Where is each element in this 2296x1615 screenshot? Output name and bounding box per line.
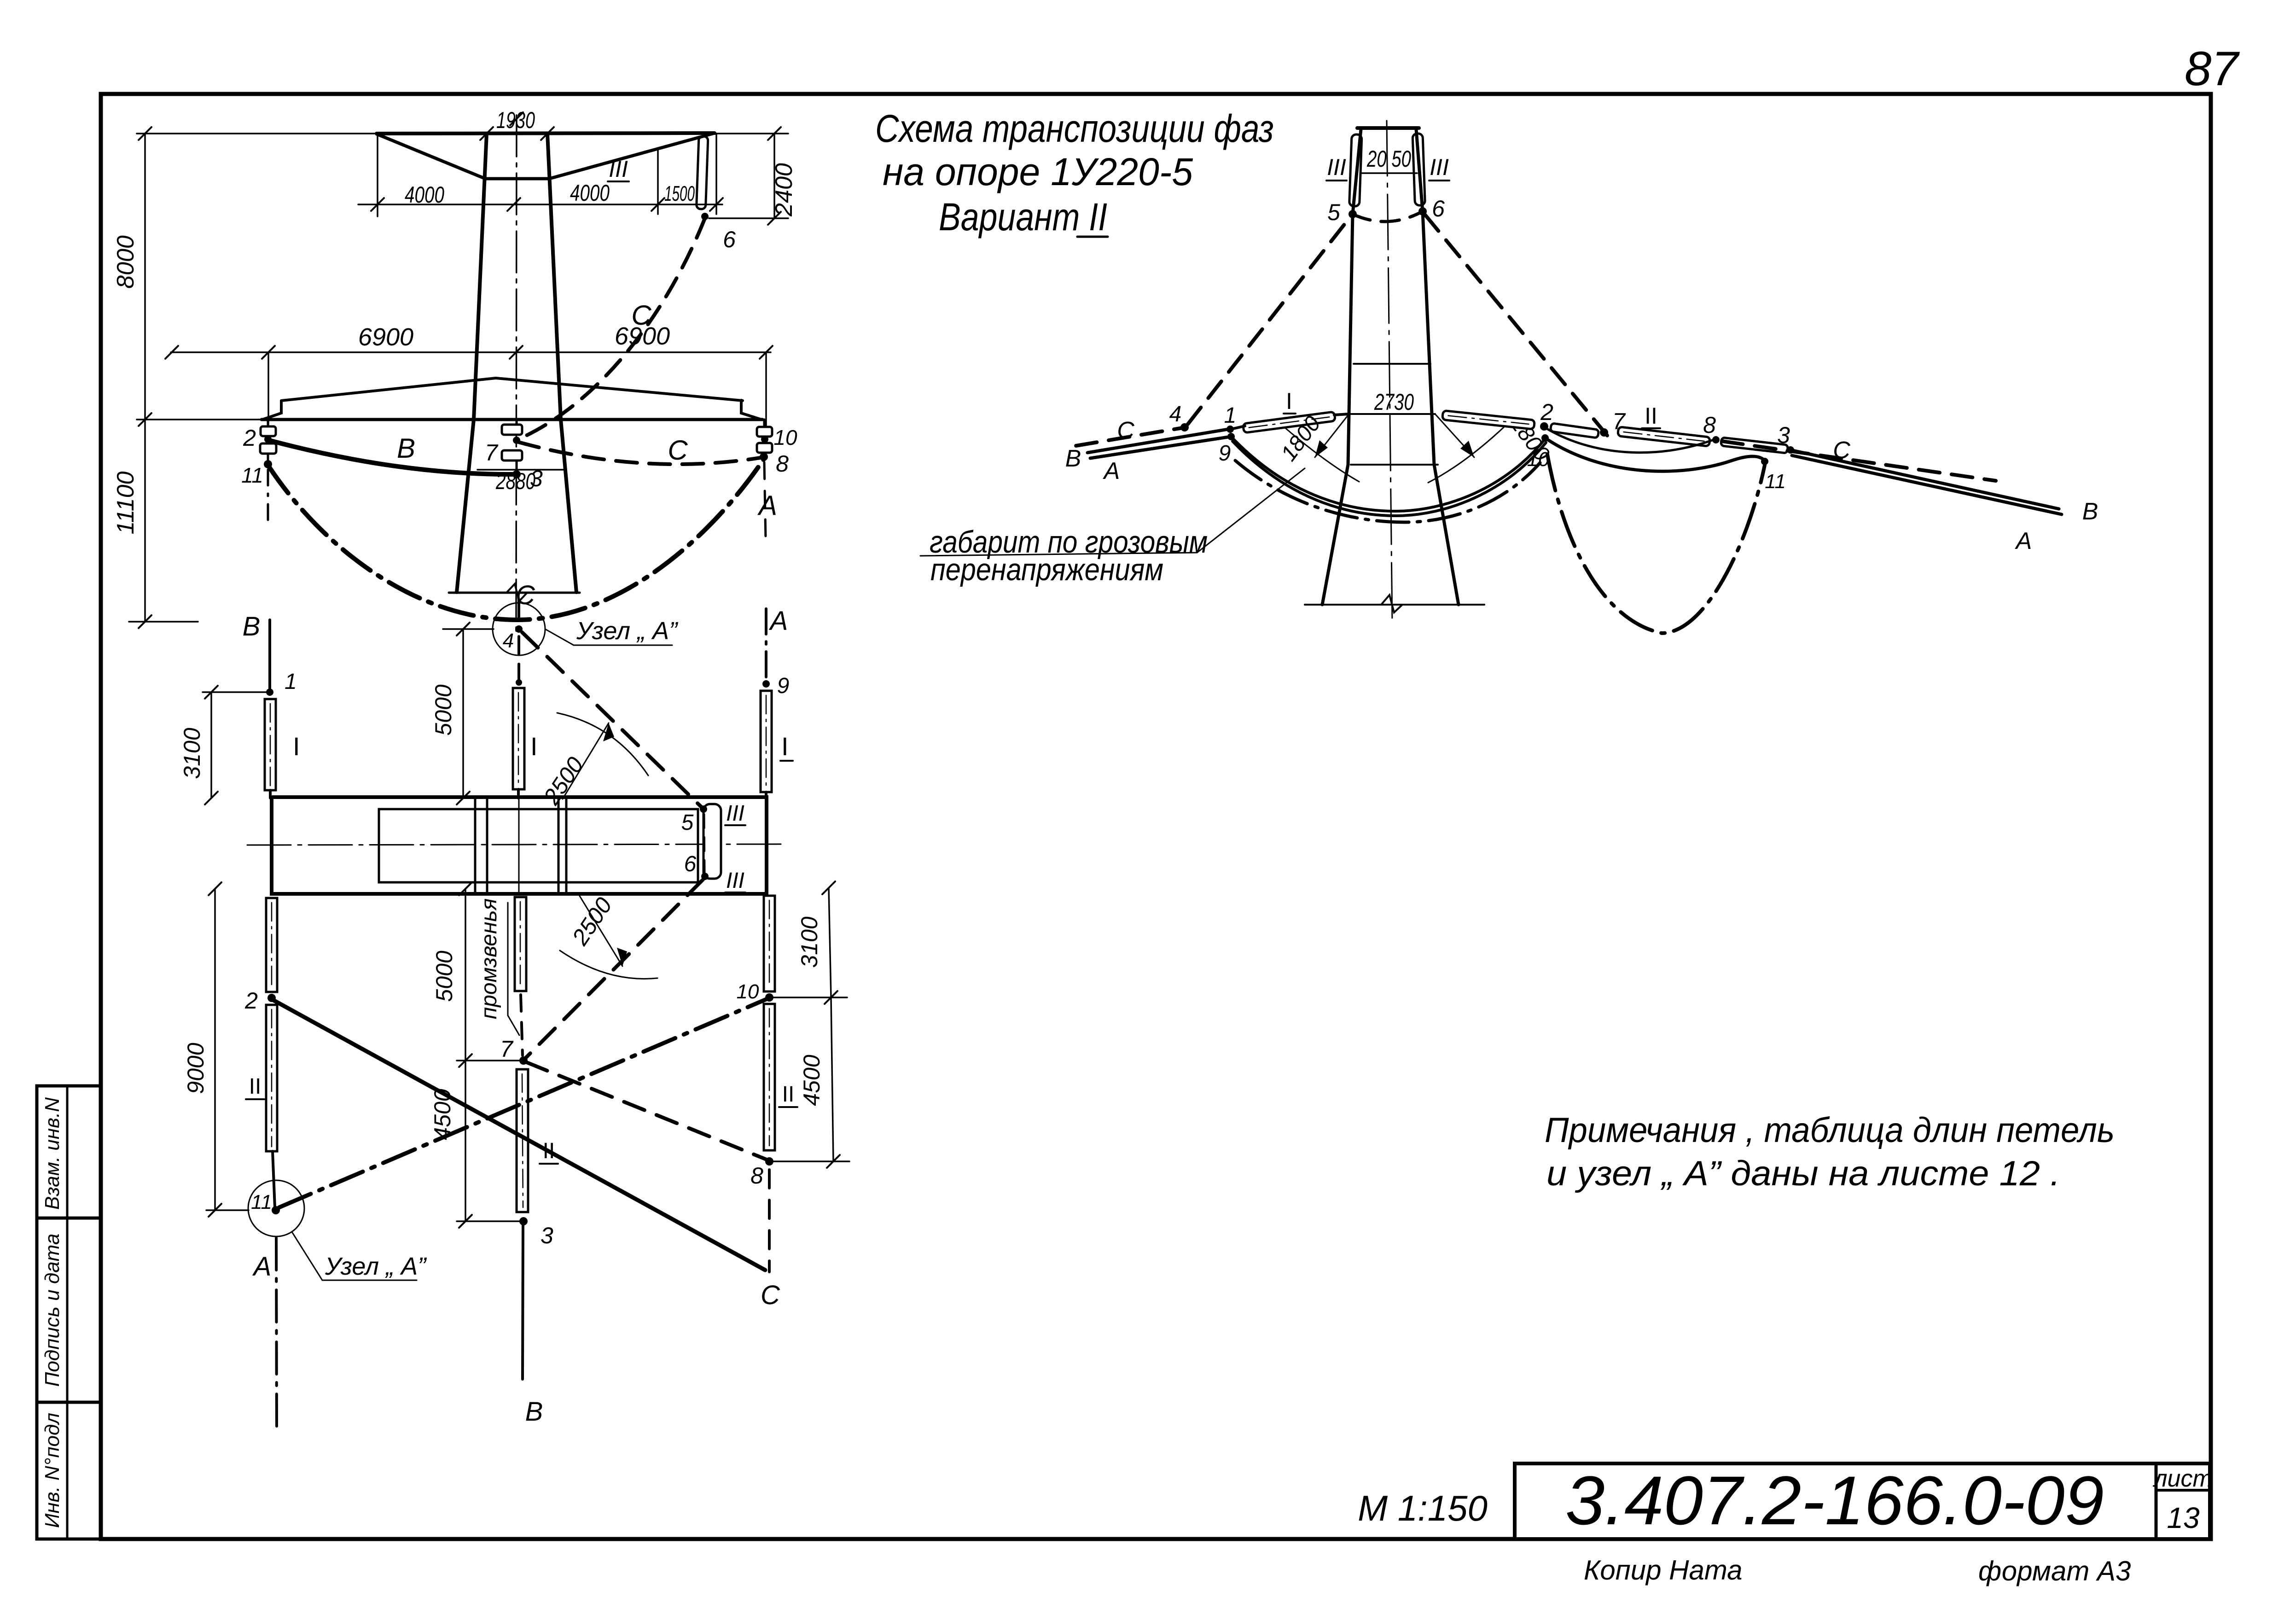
insulator I inner <box>766 695 767 787</box>
node 2 front <box>264 436 272 443</box>
thick sag 10 to 11 <box>1545 438 1765 471</box>
tick at 1556 <box>710 198 723 211</box>
title block divider (лист column) <box>2155 1463 2158 1539</box>
insulator I inner <box>518 693 519 785</box>
B axis upper line <box>268 620 271 691</box>
svg-text:Инв. N°подл: Инв. N°подл <box>41 1413 64 1528</box>
insulator I on A axis <box>761 691 772 792</box>
svg-text:C: C <box>631 300 651 331</box>
svg-text:II: II <box>782 1082 795 1107</box>
svg-text:3100: 3100 <box>796 916 822 968</box>
tick 6900 at B <box>262 346 275 359</box>
dim 5000 upper tick bottom <box>457 792 470 805</box>
dim 2880 line <box>477 469 566 471</box>
B axis link to node 11 <box>273 1151 275 1207</box>
node above insulator <box>516 679 522 686</box>
svg-text:4000: 4000 <box>405 182 444 208</box>
svg-text:B: B <box>2082 498 2098 525</box>
dim 1930 tick right <box>541 127 554 140</box>
svg-text:9000: 9000 <box>183 1043 209 1094</box>
dim 2050 line <box>1362 172 1417 174</box>
node 7 plan <box>519 1056 528 1065</box>
extension 820 <box>377 134 378 216</box>
dim 3100 connector <box>203 691 270 693</box>
svg-text:8: 8 <box>1703 412 1716 438</box>
node 3 side <box>1787 446 1794 454</box>
insulator II side 2-7 <box>1550 423 1598 438</box>
node 5 side <box>1349 210 1357 218</box>
insulator I side left <box>1243 412 1336 433</box>
tower head top line <box>1357 126 1419 130</box>
svg-text:II: II <box>1645 403 1657 429</box>
dim 5000 mid line <box>465 889 466 1061</box>
dim 3100 right line <box>829 888 831 997</box>
dim 4500 mid connector <box>457 1220 523 1222</box>
title block outline <box>1515 1463 2210 1539</box>
node 1 plan <box>266 688 273 696</box>
svg-text:2: 2 <box>1540 399 1553 425</box>
1800 left arrowhead <box>1315 440 1328 457</box>
svg-text:11: 11 <box>241 463 263 487</box>
A axis insulator II upper <box>764 896 775 991</box>
II upper inner <box>271 903 273 987</box>
svg-text:II: II <box>249 1074 262 1099</box>
svg-text:5000: 5000 <box>431 950 457 1002</box>
dim 8000 line <box>144 134 146 420</box>
B axis below 11 dash-dot <box>276 1238 277 1434</box>
dim 11100 extension mid <box>137 419 262 420</box>
svg-text:1: 1 <box>1224 403 1237 428</box>
link 1 to insulator <box>1233 426 1245 429</box>
extension 1556 <box>715 134 717 214</box>
svg-text:8: 8 <box>776 451 789 477</box>
dim 3100 tick bottom <box>205 792 218 805</box>
dim 5000 upper connector <box>443 628 494 630</box>
dim 11100 tick mid <box>139 413 151 426</box>
svg-text:6: 6 <box>684 852 697 876</box>
svg-text:C: C <box>668 435 688 466</box>
base break side <box>1381 595 1402 612</box>
svg-text:B: B <box>525 1397 543 1427</box>
dim 9000 tick bottom <box>209 1204 221 1217</box>
dim 5000 mid connector <box>457 1060 523 1061</box>
svg-text:3: 3 <box>1777 422 1790 448</box>
svg-text:3: 3 <box>541 1223 553 1248</box>
crossarm centerline <box>247 844 786 845</box>
node 4 side <box>1180 423 1189 431</box>
node 11 front <box>264 460 272 468</box>
svg-text:Копир Ната: Копир Ната <box>1584 1555 1743 1586</box>
incoming wire B <box>1087 429 1228 453</box>
узел A circle bottom <box>248 1180 304 1236</box>
dim 11100 tick bottom <box>139 615 151 628</box>
node 10 plan <box>765 993 773 1002</box>
tower shaft left edge <box>457 134 487 592</box>
center tick top <box>510 112 523 125</box>
lower crossarm left tip <box>262 401 281 420</box>
inner line <box>520 902 521 986</box>
node 6 top <box>701 213 709 220</box>
C axis through crossarm <box>518 798 520 894</box>
lower crossarm top chord <box>281 378 743 401</box>
left margin stamp box <box>37 1086 101 1539</box>
node 7 side <box>1600 428 1608 437</box>
dim 2400 tick top <box>768 127 781 140</box>
label III upper underline <box>725 824 745 826</box>
phase B wire front <box>269 440 516 474</box>
svg-text:Примечания , таблица длин пе: Примечания , таблица длин петель <box>1545 1111 2115 1150</box>
dashed diagonal 7 to 8 <box>527 1062 767 1160</box>
dim 2400 line <box>773 134 775 218</box>
top crossarm neck line <box>485 177 549 181</box>
svg-text:III: III <box>1430 154 1449 180</box>
6900 extension right <box>765 352 767 427</box>
dim 9000 connector bottom <box>206 1209 249 1211</box>
center suspension link <box>516 420 518 425</box>
tick at 820 <box>371 198 384 211</box>
B axis to crossarm <box>269 790 272 798</box>
dim 2500 upper radial <box>563 723 609 799</box>
tick 6900 left end <box>165 346 178 359</box>
III right underline <box>1429 180 1449 181</box>
dim 6900 line <box>171 351 771 353</box>
dashed jumper 6 to 7 <box>525 880 703 1058</box>
svg-text:I: I <box>293 732 300 761</box>
svg-text:2: 2 <box>244 988 258 1014</box>
dim 9000 tick top <box>209 882 221 895</box>
узел A leader top <box>545 629 672 645</box>
svg-text:8000: 8000 <box>112 235 139 289</box>
svg-text:A: A <box>757 490 777 521</box>
tick bottom <box>827 1155 840 1168</box>
node 8 plan <box>765 1157 773 1166</box>
svg-text:4500: 4500 <box>799 1055 825 1106</box>
label I side underline <box>1284 413 1296 414</box>
svg-text:I: I <box>1286 388 1292 414</box>
svg-text:2: 2 <box>243 425 256 451</box>
svg-text:A: A <box>252 1252 272 1282</box>
phase C incoming dashed <box>1076 428 1183 446</box>
svg-text:перенапряжениям: перенапряжениям <box>930 552 1163 587</box>
промзвенья leader <box>508 1015 519 1035</box>
C axis insulator below crossarm <box>515 897 526 991</box>
svg-text:III: III <box>609 156 628 182</box>
insulator III side right <box>1412 134 1425 206</box>
промзвенья underline <box>507 903 509 1015</box>
left clamp rect 1 <box>261 426 276 436</box>
insulator I on C axis <box>513 688 524 789</box>
dim 2500 lower arrowhead <box>617 948 627 966</box>
phase C sag 7 to 8 <box>518 442 763 464</box>
crossarm plan inner rect <box>379 809 698 882</box>
svg-text:11: 11 <box>251 1191 272 1213</box>
base break mark <box>506 584 527 601</box>
svg-text:III: III <box>1327 154 1346 180</box>
svg-text:9: 9 <box>1219 441 1231 466</box>
top crossarm right slant <box>549 133 715 179</box>
svg-text:6: 6 <box>1432 196 1445 222</box>
C axis dashed jumper <box>521 995 523 1055</box>
svg-text:11: 11 <box>1765 470 1786 493</box>
dim 2500 lower radial <box>579 895 622 966</box>
label I right underline <box>780 760 793 762</box>
svg-text:10: 10 <box>737 980 759 1003</box>
svg-text:6900: 6900 <box>358 323 413 351</box>
double sag 9-10 upper <box>1231 437 1545 511</box>
Вариант II underline <box>1077 236 1108 238</box>
svg-text:9: 9 <box>777 674 790 698</box>
solid diagonal 2 to C-bottom <box>273 1000 765 1270</box>
center clamp rect 1 <box>502 425 522 435</box>
dim 2500 upper arrowhead <box>603 723 614 741</box>
svg-text:2730: 2730 <box>1374 389 1414 415</box>
III left underline <box>1326 180 1347 181</box>
crossarm plan outer rect <box>272 797 767 894</box>
lower crossarm right tip <box>741 400 761 420</box>
right axis dashed below <box>764 462 766 539</box>
label III underline <box>608 181 629 182</box>
center clamp rect 2 <box>502 450 522 461</box>
node 5 plan <box>700 805 707 813</box>
svg-text:1: 1 <box>285 670 297 694</box>
node 11 plan <box>272 1206 280 1214</box>
B axis insulator II upper <box>266 898 277 992</box>
svg-text:A: A <box>2015 528 2032 554</box>
svg-text:10: 10 <box>773 426 797 449</box>
svg-text:формат А3: формат А3 <box>1978 1556 2131 1586</box>
tower top crossarm top line <box>377 133 715 134</box>
top extension to 2400 <box>715 133 788 134</box>
A axis insulator II lower <box>764 1004 775 1150</box>
svg-text:8: 8 <box>750 1163 763 1189</box>
node 8 front <box>760 453 768 461</box>
svg-text:Узел „ А”: Узел „ А” <box>576 617 678 645</box>
dim 4500 right line <box>831 997 833 1161</box>
left clamp rect 2 <box>260 443 276 454</box>
inner line <box>522 1074 523 1207</box>
svg-text:C: C <box>1117 417 1134 444</box>
insulator II side 8-3 <box>1721 437 1788 453</box>
center link <box>516 461 518 474</box>
6900 extension left <box>267 352 269 427</box>
габарит leader underline <box>920 468 1305 556</box>
svg-text:Вариант II: Вариант II <box>939 195 1107 239</box>
stamp box divider vertical <box>66 1086 69 1539</box>
dim 2500 upper arc <box>557 713 648 775</box>
insulator II side 7-8 <box>1618 427 1710 447</box>
shaft panel line <box>1354 363 1430 365</box>
C axis top dash <box>517 600 520 627</box>
inner <box>769 900 770 987</box>
dim 4000-4000-1500 line <box>358 204 722 205</box>
outgoing wire A <box>1792 455 2062 514</box>
svg-text:7: 7 <box>500 1036 514 1062</box>
dim 3100 tick top <box>205 686 218 699</box>
svg-text:11100: 11100 <box>112 471 139 534</box>
svg-text:1930: 1930 <box>496 107 535 133</box>
II lower inner <box>271 1009 273 1147</box>
jumper arc 5-6 <box>1353 211 1423 222</box>
svg-text:Схема транспозиции фаз: Схема транспозиции фаз <box>875 107 1274 150</box>
tick at 1116 <box>507 198 520 211</box>
shaft section line 3 <box>558 797 560 894</box>
A axis to crossarm <box>765 792 767 798</box>
label II left underline <box>246 1098 264 1100</box>
A axis dashed below 8 <box>768 1170 771 1272</box>
jumper inside III <box>704 814 704 872</box>
svg-text:и узел „ А” даны на листе: и узел „ А” даны на листе 12 . <box>1546 1154 2060 1193</box>
dim 5000 mid tick top <box>459 882 472 895</box>
jumper A bathtub side <box>1547 455 1765 633</box>
title block лист cell divider <box>2156 1489 2210 1492</box>
node 10 front <box>761 436 768 443</box>
node 3 front <box>512 470 521 478</box>
A axis upper dash-dot <box>765 609 767 681</box>
connector node 8 <box>769 1160 849 1162</box>
tower base side <box>1305 604 1484 606</box>
phase A loop 11 to 8 <box>268 459 764 620</box>
svg-text:6: 6 <box>723 227 736 252</box>
tower shaft right edge <box>547 134 576 592</box>
right clamp rect 1 <box>757 427 772 437</box>
dim 3100 left line <box>210 692 212 798</box>
dashed jumper 4 to 5 <box>522 632 701 807</box>
phase C jumper curve 6 to 7 <box>520 218 705 438</box>
dim 2500 lower arc <box>560 950 657 979</box>
svg-text:на опоре 1У220-5: на опоре 1У220-5 <box>883 150 1193 193</box>
top crossarm left slant <box>377 134 485 179</box>
svg-text:B: B <box>397 433 415 464</box>
dim 11100 bottom extension <box>129 621 198 623</box>
insulator III plan <box>703 804 721 879</box>
tick top <box>822 881 835 894</box>
svg-text:промзвенья: промзвенья <box>477 898 501 1019</box>
svg-text:10: 10 <box>1527 448 1550 471</box>
узел A circle top <box>493 603 545 655</box>
svg-text:М 1:150: М 1:150 <box>1358 1488 1488 1528</box>
1800 left arc <box>1285 427 1359 482</box>
node 6 plan <box>701 873 709 880</box>
dim 2730 line (crossarm level) <box>1349 413 1435 415</box>
tick bottom <box>825 991 837 1004</box>
dim 5000 upper line <box>462 629 464 798</box>
node 1 side <box>1226 426 1234 433</box>
tick 6900 center <box>510 346 523 359</box>
svg-text:13: 13 <box>2167 1501 2200 1534</box>
svg-text:2400: 2400 <box>771 163 797 217</box>
left suspension link <box>267 420 269 426</box>
svg-text:B: B <box>1065 445 1081 472</box>
svg-text:III: III <box>726 869 744 893</box>
svg-text:I: I <box>781 732 789 761</box>
svg-text:4: 4 <box>503 630 514 652</box>
svg-text:A: A <box>1103 458 1120 484</box>
dim 9000 line <box>214 889 216 1210</box>
dim 8000 extension top <box>137 133 377 134</box>
dashed jumper 6 to 7 side <box>1425 215 1610 439</box>
right clamp rect 2 <box>757 443 772 453</box>
dim 11100 line <box>144 420 146 622</box>
incoming wire A <box>1090 437 1231 458</box>
svg-text:A: A <box>769 606 788 636</box>
svg-text:Узел „ А”: Узел „ А” <box>325 1253 427 1280</box>
C axis insulator II lower <box>517 1069 528 1212</box>
tower centerline <box>516 115 517 631</box>
node 8 side <box>1712 436 1720 443</box>
svg-text:B: B <box>243 612 261 641</box>
dim 1800 right radial <box>1435 414 1474 457</box>
dim 2400 tick bottom <box>768 212 781 225</box>
svg-text:C: C <box>761 1280 780 1310</box>
B axis insulator II lower <box>266 1005 277 1151</box>
dim 4500 mid line <box>465 1061 466 1221</box>
node 11 side <box>1761 458 1768 465</box>
dim 5000 mid tick bottom <box>459 1054 472 1067</box>
1800 right arrowhead <box>1460 441 1474 457</box>
C axis dashes below 4 <box>517 636 520 679</box>
svg-text:Подпись и дата: Подпись и дата <box>41 1234 64 1387</box>
svg-text:1500: 1500 <box>664 181 695 205</box>
label II side underline <box>1642 427 1660 429</box>
inner <box>769 1009 770 1146</box>
dim 5000 upper tick top <box>457 623 470 636</box>
insulator I inner line <box>270 704 271 786</box>
node 2 side <box>1540 422 1548 431</box>
svg-text:I: I <box>530 732 538 761</box>
tower centerline side <box>1387 121 1392 625</box>
node 7 front <box>513 437 520 444</box>
label II center underline <box>540 1163 558 1165</box>
stamp box divider 2 <box>37 1401 101 1404</box>
label III lower underline <box>725 892 745 893</box>
shaft section line 1 <box>474 797 477 894</box>
svg-text:7: 7 <box>485 440 499 466</box>
C axis below 3 <box>523 1225 523 1379</box>
dash-dot diagonal 11 to 10 <box>279 999 766 1207</box>
left axis dash-dot below <box>267 470 269 525</box>
double sag 9-10 lower <box>1232 441 1546 516</box>
clearance dash-dot curve <box>1235 461 1540 522</box>
узел A leader bottom <box>292 1232 417 1280</box>
stamp box divider 1 <box>37 1217 101 1220</box>
outgoing wire B <box>1790 450 2059 509</box>
tower base line <box>449 592 580 594</box>
shaft right edge side <box>1416 129 1459 605</box>
phase C dashed outgoing <box>1722 441 1996 481</box>
node 10 side <box>1541 434 1549 442</box>
insulator I on B axis <box>265 699 276 790</box>
connector node 10 <box>769 997 847 998</box>
node 3 plan <box>519 1217 528 1225</box>
node 4 plan <box>515 625 523 633</box>
extension 1429 <box>657 150 659 214</box>
svg-text:5: 5 <box>1327 199 1340 225</box>
node 9 side <box>1227 433 1235 440</box>
thin sag 2 to 8 <box>1545 427 1712 453</box>
right suspension link <box>763 420 766 427</box>
1800 right arc <box>1428 427 1504 483</box>
svg-text:3100: 3100 <box>179 728 205 779</box>
dashed jumper 4 to 5 side <box>1188 217 1350 424</box>
svg-text:5: 5 <box>681 810 694 835</box>
insulator III side left <box>1349 134 1362 207</box>
svg-text:5000: 5000 <box>430 684 456 735</box>
svg-text:Взам. инв.N: Взам. инв.N <box>41 1097 64 1210</box>
svg-text:лист: лист <box>2152 1465 2213 1492</box>
dim 1930 tick left <box>480 127 493 140</box>
tick 6900 right <box>760 346 773 359</box>
shaft section line 2 <box>486 797 488 894</box>
